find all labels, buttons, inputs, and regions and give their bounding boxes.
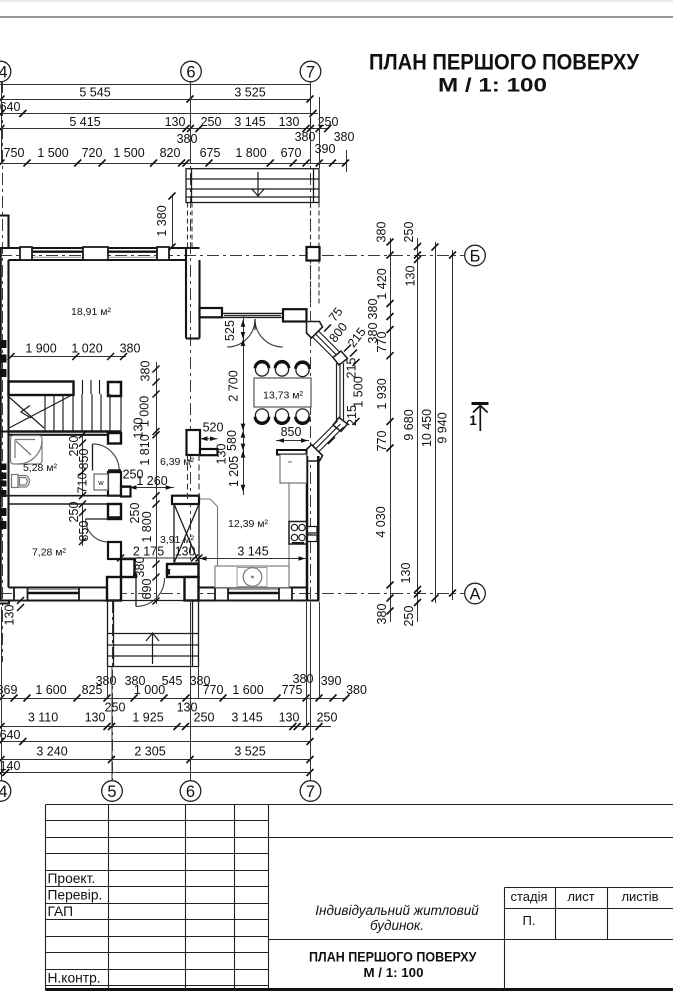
title block bottom heavy line — [46, 988, 673, 991]
bathroom top wall — [1, 432, 108, 435]
section mark 1 — [472, 404, 489, 432]
dining north wall piece — [283, 309, 307, 321]
extension line grid7 top — [310, 81, 312, 164]
bay window NE corner piece — [307, 322, 323, 339]
svg-text:770: 770 — [375, 431, 389, 452]
svg-text:130: 130 — [85, 711, 106, 725]
svg-text:369: 369 — [0, 683, 17, 697]
svg-text:ПЛАН ПЕРШОГО ПОВЕРХУ: ПЛАН ПЕРШОГО ПОВЕРХУ — [369, 50, 640, 75]
svg-text:720: 720 — [82, 146, 103, 160]
svg-text:1 420: 1 420 — [375, 268, 389, 299]
svg-text:1 260: 1 260 — [136, 474, 167, 488]
dim line top row2 (5545/3525) — [0, 99, 311, 101]
south wall right outer — [199, 599, 320, 601]
svg-text:380: 380 — [120, 342, 141, 356]
svg-text:380: 380 — [177, 132, 198, 146]
svg-text:7: 7 — [306, 64, 315, 82]
vestibule side dashed lines left — [188, 203, 320, 307]
east wall white boxes — [308, 527, 318, 534]
right dim line chain x417.5 — [417, 238, 419, 622]
svg-text:250: 250 — [317, 711, 338, 725]
svg-text:9 940: 9 940 — [436, 412, 450, 443]
window N jamb block right — [157, 247, 169, 260]
grid line 7 vertical dash-dot — [310, 81, 312, 780]
svg-text:250: 250 — [402, 606, 416, 627]
dim line bottom row1 — [0, 698, 347, 700]
title block outer left vertical — [45, 805, 47, 991]
svg-text:6: 6 — [186, 783, 195, 801]
right dim line chain x390 — [390, 238, 392, 622]
svg-text:1 810: 1 810 — [138, 434, 152, 465]
svg-text:7,28 м²: 7,28 м² — [32, 547, 67, 559]
bay window corner block lower — [333, 418, 348, 432]
svg-text:3 110: 3 110 — [28, 711, 58, 725]
svg-text:130: 130 — [3, 605, 17, 626]
svg-text:770: 770 — [203, 683, 224, 697]
chairs top — [255, 363, 309, 422]
north wall outer line — [0, 247, 200, 249]
svg-text:1 900: 1 900 — [25, 342, 56, 356]
bathroom/hall wall black pier upper — [108, 433, 121, 444]
stair top wall bar (black) — [9, 382, 74, 396]
vestibule entrance door sill — [222, 313, 283, 317]
dim line top row1 — [0, 84, 311, 86]
wardrobe with X — [174, 504, 199, 563]
svg-text:520: 520 — [203, 421, 224, 435]
svg-text:Проект.: Проект. — [48, 871, 96, 886]
svg-text:250: 250 — [402, 222, 416, 243]
dim line top row3 (640) — [0, 113, 318, 115]
west wall inner line — [7, 260, 9, 588]
dim line top row4 (5415...) — [0, 128, 329, 130]
extension line x346 top — [346, 150, 348, 172]
north wall inner line — [9, 259, 187, 261]
svg-text:250: 250 — [201, 115, 222, 129]
toilet — [12, 475, 30, 488]
svg-text:7: 7 — [306, 783, 315, 801]
svg-text:лист: лист — [567, 889, 594, 904]
window S1 jamb blocks — [14, 588, 28, 601]
svg-text:4 030: 4 030 — [374, 506, 388, 537]
svg-text:2 175: 2 175 — [133, 545, 164, 559]
bathroom door arc — [93, 444, 120, 471]
grid bubble 6 bottom — [180, 781, 201, 802]
svg-text:3 525: 3 525 — [234, 86, 265, 100]
dim 250/1260 hall opening — [121, 487, 174, 489]
window N1 glazing — [32, 250, 83, 252]
stair direction lines — [9, 396, 70, 428]
svg-text:770: 770 — [375, 332, 389, 353]
svg-text:А: А — [469, 586, 480, 604]
svg-text:380: 380 — [133, 557, 147, 578]
porch down arrow — [252, 172, 265, 196]
washing machine — [94, 474, 108, 490]
svg-text:215: 215 — [345, 358, 359, 379]
grid line А horizontal dash-dot — [0, 593, 464, 595]
entrance door leaf — [135, 578, 137, 607]
svg-text:390: 390 — [315, 142, 336, 156]
south wall left outer — [0, 599, 107, 601]
dim line bottom row3 — [0, 741, 311, 743]
dim 520 — [200, 438, 218, 440]
svg-text:1 600: 1 600 — [35, 683, 66, 697]
grid line 4 vertical dash-dot — [2, 81, 4, 662]
svg-text:1 500: 1 500 — [113, 146, 144, 160]
svg-text:18,91 м²: 18,91 м² — [71, 306, 111, 318]
svg-text:380: 380 — [346, 683, 367, 697]
entrance right wall black D — [185, 577, 199, 601]
kitchen zone boundary — [200, 499, 289, 566]
grid line 6 vertical dash-dot — [190, 81, 192, 780]
entrance door jamb marks — [133, 574, 137, 579]
svg-text:6: 6 — [186, 64, 195, 82]
svg-text:380: 380 — [295, 130, 316, 144]
svg-text:1 930: 1 930 — [375, 378, 389, 409]
stamp header box lines — [505, 887, 673, 889]
window S2 jamb blocks — [215, 588, 228, 601]
svg-text:670: 670 — [281, 146, 302, 160]
svg-text:130: 130 — [279, 711, 300, 725]
tick marks top block — [0, 96, 349, 167]
svg-text:1: 1 — [469, 413, 477, 428]
svg-text:2 700: 2 700 — [227, 370, 241, 401]
SW corner step — [0, 601, 9, 604]
porch (bottom) — [108, 601, 199, 667]
svg-text:6,39 м²: 6,39 м² — [160, 456, 195, 468]
bay dim ticks — [324, 325, 360, 445]
vestibule side dashed lines right — [310, 203, 312, 307]
hall bottom black bar C — [167, 564, 199, 577]
ticks bottom block — [0, 695, 350, 777]
corner column at Б/7 — [307, 247, 320, 261]
grid line 5 vertical stub — [112, 601, 114, 780]
svg-text:1 500: 1 500 — [352, 376, 366, 407]
grid bubble 7 top — [300, 61, 321, 82]
svg-text:1 800: 1 800 — [140, 511, 154, 542]
vestibule south wall stub — [200, 308, 223, 317]
svg-text:3 145: 3 145 — [231, 711, 262, 725]
svg-text:640: 640 — [0, 100, 20, 114]
svg-text:215: 215 — [345, 405, 359, 426]
svg-text:825: 825 — [82, 683, 103, 697]
svg-text:стадія: стадія — [510, 889, 547, 904]
svg-text:690: 690 — [140, 579, 154, 600]
svg-text:820: 820 — [160, 146, 181, 160]
svg-text:13,73 м²: 13,73 м² — [263, 390, 303, 402]
svg-text:525: 525 — [223, 320, 237, 341]
svg-text:Б: Б — [470, 248, 481, 266]
west wall outer line — [0, 248, 2, 601]
title block column lines — [108, 805, 110, 991]
shower tray — [11, 436, 43, 465]
bottom porch up arrow — [146, 633, 159, 664]
svg-text:130: 130 — [399, 563, 413, 584]
boiler wall horizontal black stub — [200, 449, 218, 455]
entrance door arc — [136, 578, 165, 607]
svg-text:ПЛАН ПЕРШОГО ПОВЕРХУ: ПЛАН ПЕРШОГО ПОВЕРХУ — [309, 949, 477, 965]
dim line bottom row5 — [0, 772, 311, 774]
svg-text:12,39 м²: 12,39 м² — [228, 518, 268, 530]
svg-text:850: 850 — [77, 521, 91, 542]
room 7,28 door dim chain — [82, 504, 84, 546]
grid bubble 4 bottom — [0, 781, 11, 802]
svg-text:4: 4 — [0, 64, 8, 82]
svg-text:1 600: 1 600 — [232, 683, 263, 697]
bay window vertical glazing — [337, 363, 344, 420]
kitchen/corridor dashed boundary — [188, 455, 200, 500]
hall wall white piece lower — [108, 542, 121, 559]
svg-text:130: 130 — [175, 545, 196, 559]
porch (top) steps — [186, 169, 319, 203]
hall/kitchen wall white piece — [172, 496, 199, 504]
svg-text:4: 4 — [0, 783, 8, 801]
extension line x319 top — [319, 97, 321, 168]
grid bubble А — [465, 583, 486, 604]
dim line top row5 (750...) — [0, 163, 347, 165]
svg-text:3,91 м²: 3,91 м² — [160, 534, 195, 546]
dim line bottom row4 — [0, 759, 311, 761]
svg-text:9 680: 9 680 — [402, 409, 416, 440]
svg-text:1 205: 1 205 — [227, 456, 241, 487]
svg-text:10 450: 10 450 — [420, 409, 434, 447]
south wall right inner — [199, 586, 307, 588]
kitchen counter top bar black — [277, 450, 307, 455]
svg-text:1 800: 1 800 — [235, 146, 266, 160]
svg-text:640: 640 — [0, 728, 20, 742]
svg-text:250: 250 — [105, 701, 126, 715]
svg-text:130: 130 — [404, 266, 418, 287]
extension line grid4 top — [1, 81, 3, 164]
svg-text:3 525: 3 525 — [234, 745, 265, 759]
svg-text:Індивідуальний житловий: Індивідуальний житловий — [315, 903, 479, 918]
svg-text:М / 1: 100: М / 1: 100 — [364, 965, 424, 980]
window S2 (kitchen) glazing — [228, 592, 279, 595]
vertical dim 1380 at porch left — [172, 196, 174, 247]
vestibule double door arcs — [227, 319, 283, 347]
central vertical dim chain x156 — [156, 362, 158, 604]
svg-text:710: 710 — [76, 473, 90, 494]
bay window SE corner piece — [307, 445, 323, 462]
room 7,28 door leaf — [86, 518, 109, 520]
top page rule light — [0, 0, 673, 2]
svg-text:Перевір.: Перевір. — [48, 888, 103, 903]
right dim line 10450 — [435, 242, 437, 603]
svg-text:380: 380 — [375, 604, 389, 625]
grid bubble 4 top — [0, 61, 11, 82]
hall wall black pier mid — [108, 504, 121, 519]
window N jamb block left — [20, 247, 32, 260]
svg-text:1 020: 1 020 — [71, 342, 102, 356]
right pane row line — [269, 939, 673, 941]
dim 3145 kitchen — [199, 558, 307, 560]
dim 2175/130 — [121, 557, 201, 559]
entrance left wall black B — [107, 577, 121, 601]
svg-text:5 415: 5 415 — [69, 115, 100, 129]
fridge box — [280, 455, 307, 484]
pier box between N windows — [83, 247, 108, 260]
svg-text:1 500: 1 500 — [37, 146, 68, 160]
svg-text:140: 140 — [0, 759, 20, 773]
grid line Б horizontal dash-dot — [0, 255, 464, 257]
svg-text:П.: П. — [523, 913, 536, 928]
bay window corner block upper — [333, 351, 348, 365]
grid bubble Б — [465, 245, 486, 266]
grid bubble 5 bottom — [102, 781, 123, 802]
stove — [289, 522, 307, 545]
svg-text:675: 675 — [200, 146, 221, 160]
svg-text:3 145: 3 145 — [234, 115, 265, 129]
svg-text:750: 750 — [4, 146, 25, 160]
svg-text:3 240: 3 240 — [36, 745, 67, 759]
bathroom/room partition — [1, 496, 121, 504]
svg-text:580: 580 — [225, 430, 239, 451]
east wall black (kitchen) — [306, 456, 309, 600]
svg-text:250: 250 — [194, 711, 215, 725]
svg-text:5: 5 — [107, 783, 116, 801]
svg-text:3 145: 3 145 — [237, 545, 268, 559]
bay window diagonal glazing bottom — [313, 421, 344, 452]
grid bubble 7 bottom — [300, 781, 321, 802]
svg-text:w: w — [97, 478, 104, 487]
svg-text:380: 380 — [334, 130, 355, 144]
svg-text:390: 390 — [321, 674, 342, 688]
bottom counter with sink — [215, 566, 289, 588]
title block row lines left table — [46, 804, 673, 806]
staircase steps — [9, 380, 122, 432]
bathroom door leaf — [92, 444, 94, 471]
kitchen counter front edge — [288, 483, 290, 566]
svg-text:будинок.: будинок. — [370, 918, 424, 933]
NW corner step — [0, 216, 9, 249]
svg-text:380: 380 — [375, 222, 389, 243]
svg-text:М / 1: 100: М / 1: 100 — [438, 76, 547, 97]
dim line bottom row2 — [0, 726, 331, 728]
bathroom door dim chain — [82, 435, 84, 496]
svg-text:2 305: 2 305 — [134, 745, 165, 759]
svg-text:380: 380 — [139, 361, 153, 382]
svg-text:850: 850 — [281, 425, 302, 439]
extension line grid6 top — [190, 81, 192, 164]
svg-text:250: 250 — [67, 502, 81, 523]
svg-text:5,28 м²: 5,28 м² — [23, 462, 58, 474]
dim 850 bay — [276, 440, 309, 442]
hall/kitchen wall band black piece — [121, 487, 131, 497]
grid bubble 6 top — [181, 61, 202, 82]
dining table — [254, 378, 311, 407]
svg-text:ГАП: ГАП — [48, 904, 74, 919]
svg-text:775: 775 — [282, 683, 303, 697]
bathroom/hall wall white piece — [108, 469, 121, 472]
hall bottom black bar A — [121, 559, 135, 577]
svg-text:5 545: 5 545 — [79, 86, 110, 100]
window N2 glazing — [108, 250, 157, 252]
svg-text:380: 380 — [366, 299, 380, 320]
right interior vertical dim chain x243 — [243, 316, 245, 495]
svg-text:130: 130 — [279, 115, 300, 129]
bay window diagonal glazing top — [313, 331, 344, 362]
window S1 glazing — [28, 592, 80, 595]
interior dim 1900/1020/380 — [11, 356, 126, 358]
extension lines bottom — [2, 602, 320, 780]
south wall left inner — [9, 586, 108, 588]
stair NE pier (black) — [108, 382, 121, 396]
right block ticks — [387, 239, 457, 615]
svg-text:250: 250 — [318, 115, 339, 129]
svg-text:1 925: 1 925 — [132, 711, 163, 725]
west wall window boxes (sill marks) — [0, 340, 7, 529]
svg-text:Н.контр.: Н.контр. — [48, 971, 101, 986]
boiler wall vertical white — [187, 430, 201, 455]
room 7,28 door arc — [86, 519, 109, 542]
right dim line 9940 — [452, 250, 454, 600]
top page rule dark — [0, 16, 673, 18]
svg-text:1 380: 1 380 — [155, 205, 169, 236]
18,91 room east wall — [186, 248, 200, 339]
svg-text:листів: листів — [621, 889, 658, 904]
svg-text:130: 130 — [165, 115, 186, 129]
svg-text:1 000: 1 000 — [134, 683, 165, 697]
svg-text:850: 850 — [77, 449, 91, 470]
